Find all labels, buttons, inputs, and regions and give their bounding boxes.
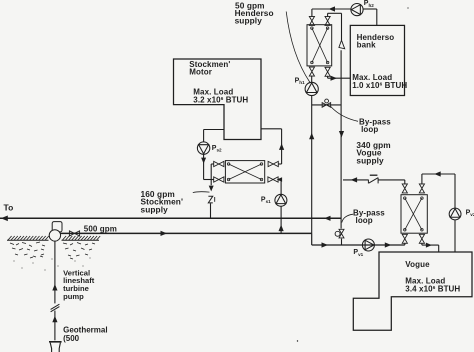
svg-text:supply: supply	[141, 204, 169, 214]
svg-text:supply: supply	[356, 155, 384, 165]
svg-text:(500: (500	[63, 334, 80, 343]
svg-text:supply: supply	[235, 16, 263, 26]
svg-text:bank: bank	[357, 40, 377, 49]
svg-text:Vogue: Vogue	[405, 260, 430, 269]
svg-text:loop: loop	[356, 216, 373, 225]
svg-text:loop: loop	[361, 125, 378, 134]
svg-text:500 gpm: 500 gpm	[84, 225, 117, 234]
svg-text:Motor: Motor	[189, 67, 212, 76]
svg-text:pump: pump	[63, 292, 84, 301]
svg-text:To: To	[4, 203, 14, 213]
